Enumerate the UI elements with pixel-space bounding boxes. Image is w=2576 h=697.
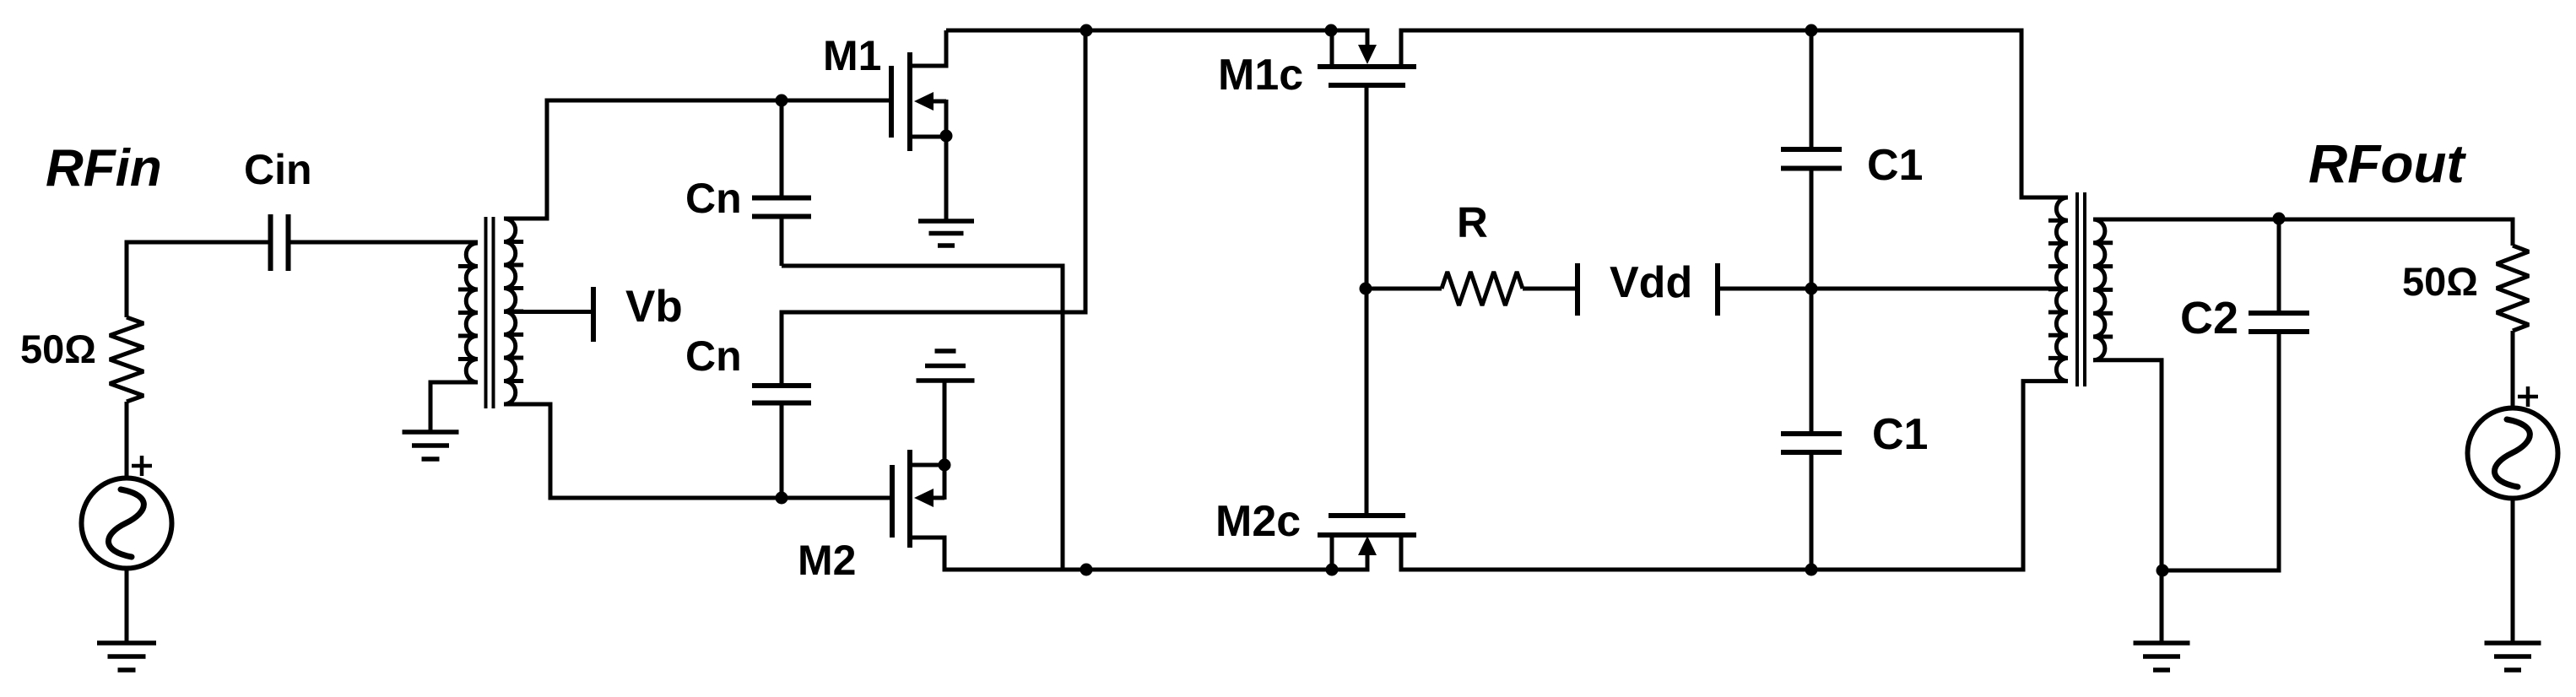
capacitor C1 top label	[1867, 141, 1923, 190]
wire cross line A	[782, 266, 1063, 570]
transformer T2 primary winding	[2048, 197, 2068, 381]
wire T1 center tap to Vb	[504, 310, 592, 314]
ground at Vout	[2485, 643, 2541, 670]
capacitor Cn top label	[685, 175, 742, 222]
transistor M1c bulk arrow	[1358, 29, 1377, 65]
transistor M1c gate bar	[1329, 83, 1405, 88]
wire top rail to T2 primary top	[2021, 29, 2068, 198]
capacitor C2	[2249, 313, 2309, 332]
wire Cn top to cross line A	[780, 219, 784, 266]
resistor 50ohm load	[2497, 246, 2529, 331]
ground at output	[2134, 643, 2190, 670]
supply terminal Vdd left bar	[1575, 263, 1580, 316]
capacitor C1 bottom label	[1872, 410, 1928, 459]
wire top rail left segment	[946, 29, 1369, 33]
wire M1 gate to Cn top	[780, 100, 784, 196]
transistor M2c source lead	[1330, 536, 1334, 572]
node bottom rail dot at M2c source	[1326, 564, 1339, 576]
wire load resistor to source Vout	[2511, 331, 2515, 408]
svg-text:Cn: Cn	[685, 175, 742, 222]
node M1 gate junction dot	[776, 95, 788, 107]
svg-text:50Ω: 50Ω	[20, 327, 96, 371]
wire C2 top to RFout wire	[2277, 219, 2281, 311]
capacitor C1 bottom	[1781, 434, 1842, 452]
transistor M2c channel bar	[1318, 532, 1416, 538]
node RFout dot at C2	[2273, 213, 2286, 225]
transformer T1 core	[486, 217, 494, 408]
transistor M2 source lead	[910, 463, 944, 467]
node Vdd line dot at C1	[1805, 283, 1818, 295]
transistor M2 bulk arrow	[914, 489, 944, 507]
transistor M2 drain lead	[910, 538, 944, 572]
transistor M1c label	[1218, 51, 1303, 100]
wire bottom rail left segment	[944, 568, 1369, 572]
wire M2 source to ground	[943, 382, 947, 500]
source Vin (AC)	[82, 478, 172, 569]
resistor R	[1442, 272, 1523, 305]
svg-text:R: R	[1457, 198, 1488, 246]
node bottom rail dot at cross line A	[1080, 564, 1093, 576]
node top rail dot at M1c source	[1325, 24, 1338, 37]
svg-text:Cin: Cin	[244, 146, 312, 193]
svg-text:Vb: Vb	[625, 282, 683, 332]
wire C1 top to Vdd node	[1810, 170, 1814, 289]
wire T2 secondary top to RFout	[2093, 218, 2513, 222]
capacitor Cin label	[244, 146, 312, 193]
svg-text:M2: M2	[798, 537, 856, 584]
ground at Vin	[97, 643, 156, 670]
transistor M1c gate lead	[1365, 88, 1369, 289]
wire T1 primary bottom to ground	[430, 382, 478, 432]
capacitor Cn bottom	[752, 386, 811, 403]
wire cross line B	[782, 30, 1085, 383]
transistor M1c source lead	[1330, 29, 1334, 65]
wire output ground to C2 bottom	[2162, 334, 2279, 571]
svg-text:Cn: Cn	[685, 332, 742, 380]
svg-text:50Ω: 50Ω	[2402, 259, 2478, 304]
transformer T1 primary winding	[458, 243, 478, 382]
svg-text:RFout: RFout	[2308, 133, 2467, 194]
transistor M2c gate bar	[1329, 513, 1405, 518]
resistor R label	[1457, 198, 1488, 246]
svg-text:C1: C1	[1872, 410, 1928, 459]
transformer T2 core	[2077, 192, 2085, 386]
capacitor Cn bottom label	[685, 332, 742, 380]
transistor M1c channel bar	[1318, 64, 1416, 69]
wire Vout to ground	[2511, 499, 2515, 643]
wire bottom rail to T2 primary bottom	[2023, 381, 2068, 572]
transistor M2 label	[798, 537, 856, 584]
node M2 gate junction dot	[776, 492, 788, 505]
svg-text:M1: M1	[823, 32, 881, 79]
wire T1 secondary bottom to M2 gate	[504, 404, 890, 498]
resistor 50ohm load label	[2402, 259, 2478, 304]
bias Vb label	[625, 282, 683, 332]
resistor 50ohm input	[110, 317, 143, 402]
transformer T2 secondary winding	[2093, 219, 2113, 360]
node bottom rail dot at C1	[1805, 564, 1818, 576]
svg-text:C2: C2	[2180, 293, 2238, 343]
transistor M2c label	[1215, 497, 1301, 546]
transistor M2c gate lead	[1365, 289, 1369, 513]
node output ground dot	[2157, 565, 2169, 577]
capacitor Cn top	[752, 198, 811, 217]
wire T2 secondary bottom down	[2093, 360, 2162, 571]
wire top rail to C1 top	[1810, 30, 1814, 148]
transistor M2 gate bar	[890, 465, 895, 538]
resistor 50ohm input label	[20, 327, 96, 371]
supply Vdd label	[1610, 258, 1692, 307]
capacitor C1 top	[1781, 149, 1842, 169]
node M2 source dot	[939, 459, 951, 472]
wire Vdd node to T2 center tap	[1811, 287, 2068, 291]
wire Vdd to C1 node	[1718, 287, 1811, 291]
svg-text:M2c: M2c	[1215, 497, 1301, 546]
capacitor Cin	[271, 214, 289, 271]
ground at T1 primary	[403, 432, 459, 459]
wire top rail right segment	[1399, 29, 2021, 33]
wire output node to ground	[2160, 570, 2164, 643]
plus polarity mark Vout	[2518, 386, 2538, 407]
wire RFout to 50ohm load	[2511, 218, 2515, 246]
transistor M1 gate bar	[889, 66, 894, 138]
plus polarity mark Vin	[132, 456, 152, 476]
wire Vdd node to C1 bottom	[1810, 289, 1814, 432]
transistor M1 label	[823, 32, 881, 79]
bias terminal Vb	[591, 287, 596, 342]
node cascode gate dot	[1360, 283, 1372, 295]
node RFin label	[46, 139, 162, 197]
transistor M1 channel bar	[907, 52, 912, 151]
capacitor C2 label	[2180, 293, 2238, 343]
wire Vin to ground	[125, 569, 129, 643]
transistor M2c bulk arrow	[1358, 536, 1377, 572]
svg-text:Vdd: Vdd	[1610, 258, 1692, 307]
node M1 source dot	[940, 130, 953, 143]
wire Cn bottom to M2 gate	[780, 405, 784, 498]
wire C1 bottom to bottom rail	[1810, 455, 1814, 570]
node top rail dot at C1	[1805, 24, 1818, 37]
transistor M1 drain lead	[910, 30, 946, 66]
ground at M2 source (flipped)	[917, 351, 975, 381]
wire R to Vdd terminal	[1523, 287, 1577, 291]
transistor M1c drain lead	[1401, 30, 1402, 67]
svg-text:RFin: RFin	[46, 139, 162, 197]
wire gate node to R	[1366, 287, 1442, 291]
supply terminal Vdd right bar	[1715, 263, 1720, 316]
ground at M1 source	[918, 221, 974, 246]
node RFout label	[2308, 133, 2467, 194]
wire M1 source to ground	[944, 100, 949, 221]
wire RFin down to 50ohm resistor	[125, 240, 129, 318]
transformer T1 secondary winding	[504, 219, 523, 404]
source Vout (AC)	[2468, 408, 2558, 499]
wire resistor to source Vin	[125, 402, 129, 478]
node top rail dot at cross line B	[1080, 24, 1093, 37]
transistor M2c drain lead	[1401, 535, 1402, 570]
wire bottom rail right segment	[1399, 568, 2023, 572]
wire RFin to Cin	[125, 240, 269, 245]
svg-text:C1: C1	[1867, 141, 1923, 190]
wire Cin to input transformer	[290, 240, 478, 245]
svg-text:M1c: M1c	[1218, 51, 1303, 100]
wire T1 secondary top to M1 gate	[504, 100, 889, 219]
transistor M2 channel bar	[907, 450, 912, 548]
transistor M1 bulk arrow	[914, 92, 946, 111]
transistor M1 source lead	[910, 135, 946, 139]
